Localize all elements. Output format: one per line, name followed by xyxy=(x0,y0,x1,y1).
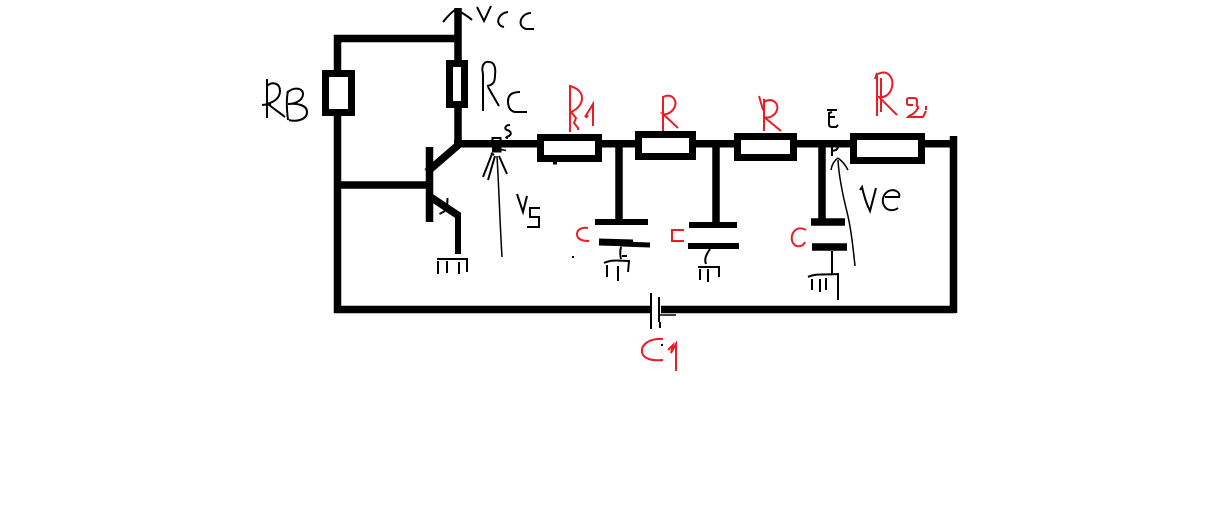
wire R to junction B xyxy=(695,140,737,148)
label R1 (red) xyxy=(570,86,593,132)
node E scribble xyxy=(832,141,838,156)
wire R1 to junction A xyxy=(598,140,638,148)
VCC arrow xyxy=(443,9,472,22)
wire node S to R1 xyxy=(454,140,540,148)
wire base xyxy=(334,181,430,189)
ground (first capacitor) xyxy=(604,247,629,281)
label Ve xyxy=(860,187,899,211)
ground (second capacitor) xyxy=(698,249,719,282)
wire RB bottom vertical xyxy=(334,112,342,313)
capacitor C (second) bottom plate xyxy=(688,243,739,249)
label C (first, red) xyxy=(577,228,589,241)
label R2 (red) xyxy=(875,73,926,117)
resistor RB xyxy=(326,74,352,113)
resistor R2 xyxy=(854,137,922,161)
capacitor C (second) top plate xyxy=(689,222,737,228)
stray dot 1 xyxy=(572,256,574,258)
resistor R1 xyxy=(541,138,599,159)
label C (third, red) xyxy=(792,228,806,246)
label RB xyxy=(262,79,307,121)
stray notch under R1 box xyxy=(553,162,557,165)
ground (emitter) xyxy=(437,259,468,274)
capacitor C1 right plate xyxy=(659,297,676,328)
capacitor C1 left plate xyxy=(650,293,652,329)
label E (node) xyxy=(827,110,838,127)
ground (third capacitor) xyxy=(808,251,838,300)
wire junction C vertical xyxy=(818,144,826,221)
wire junction A vertical xyxy=(615,144,623,221)
wire R to junction C xyxy=(794,140,851,148)
capacitor C (third) top plate xyxy=(811,218,845,226)
label s (node) xyxy=(505,125,510,138)
wire emitter vertical xyxy=(455,213,461,254)
capacitor C (first) bottom plate xyxy=(599,242,650,245)
transistor Q1 base bar xyxy=(426,147,434,222)
stray dot 2 xyxy=(661,344,663,346)
node S scribble xyxy=(483,138,507,257)
capacitor C (third) bottom plate xyxy=(812,243,847,251)
wire R2 to right rail xyxy=(921,140,953,148)
wire right rail vertical xyxy=(950,136,958,313)
label R (second, red) xyxy=(663,96,678,131)
label R (third, red) xyxy=(759,96,781,131)
wire RB top vertical xyxy=(334,35,342,74)
resistor R (third) xyxy=(738,137,794,158)
transistor Q1 collector stroke xyxy=(427,144,460,173)
label C (second, red) xyxy=(672,230,684,241)
wire junction B vertical xyxy=(712,144,720,224)
wire VCC vertical xyxy=(454,8,462,64)
transistor Q1 emitter arrow marks xyxy=(440,198,448,214)
wire bottom rail left segment xyxy=(334,306,650,314)
wire bottom rail right segment xyxy=(661,306,956,314)
label C1 (red) xyxy=(642,339,676,371)
resistor R (second) xyxy=(639,135,693,157)
transistor Q1 emitter stroke xyxy=(429,196,459,216)
arrow to node E xyxy=(831,158,855,266)
wire RC to node xyxy=(454,104,462,146)
wire top rail xyxy=(334,35,458,43)
capacitor C (first) top plate xyxy=(595,219,648,225)
resistor RC xyxy=(450,64,465,105)
label Rc xyxy=(482,62,527,112)
label Vs xyxy=(517,194,540,227)
label Vcc xyxy=(477,6,534,29)
